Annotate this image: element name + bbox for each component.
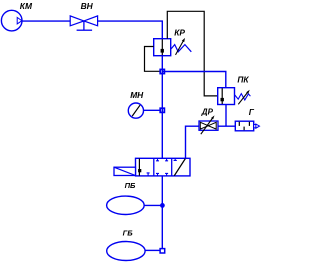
DR adjust arrow: [201, 118, 213, 135]
throttle DR box: [199, 121, 218, 130]
valve VN left triangle: [70, 16, 84, 26]
section3 top port mark: [174, 158, 177, 160]
DR bowtie left: [200, 122, 208, 129]
wire PK to bottom line: [225, 105, 227, 127]
svg-text:МН: МН: [130, 90, 144, 100]
cylinder G body: [235, 121, 253, 131]
gauge MN circle: [128, 103, 143, 118]
junction node at branch: [160, 69, 164, 73]
section1 bottom port mark: [147, 173, 150, 176]
distributor body: [136, 158, 191, 176]
cylinder G rod arrow: [256, 124, 260, 128]
svg-text:ВН: ВН: [81, 1, 94, 11]
pump KM outlet triangle: [17, 17, 22, 24]
junction ring GB: [160, 249, 165, 253]
gauge MN needle: [132, 105, 140, 116]
relief valve KR box: [154, 39, 171, 56]
KR element line: [161, 39, 163, 55]
junction node at MN branch: [160, 108, 164, 112]
section3 flow diagonal: [174, 159, 185, 176]
PK spring: [235, 94, 251, 100]
wire pump to VN: [22, 20, 70, 22]
solenoid box: [114, 167, 136, 175]
junction dot PB: [160, 203, 165, 208]
section2 bottom port marks: [156, 173, 168, 175]
solenoid diagonal: [114, 167, 136, 175]
section1 element square: [138, 169, 141, 172]
KR adjust arrow: [176, 40, 184, 55]
wire GB to main line: [145, 249, 160, 251]
KR spring: [171, 45, 191, 52]
wire VN to corner and main vertical down to distributor: [98, 21, 163, 158]
tank GB ellipse: [107, 242, 145, 261]
svg-text:ПБ: ПБ: [125, 181, 136, 190]
cylinder G tick 1: [238, 122, 240, 126]
section2 top port marks: [156, 158, 168, 160]
PK adjust arrow: [238, 92, 247, 104]
wire MN to main line: [144, 109, 161, 111]
svg-text:Г: Г: [249, 107, 255, 117]
valve VN right triangle: [84, 16, 98, 26]
distributor divider 2: [171, 158, 173, 176]
KR pilot line top (black): [167, 11, 217, 96]
pump KM circle: [1, 10, 22, 31]
svg-text:КР: КР: [174, 27, 185, 37]
svg-text:ГБ: ГБ: [123, 228, 134, 237]
valve VN stem: [83, 21, 85, 30]
DR bowtie right: [208, 122, 216, 129]
PK element line: [221, 88, 223, 104]
PK element square: [221, 98, 224, 101]
wire branch to PK: [162, 72, 226, 88]
svg-text:ДР: ДР: [201, 107, 214, 116]
wire PB to main line: [144, 204, 162, 206]
wire throttle branch from distributor: [186, 126, 200, 158]
wire distributor to tanks: [161, 176, 163, 251]
section1 element line: [138, 159, 140, 176]
wire throttle to cylinder: [218, 125, 235, 127]
svg-text:ПК: ПК: [237, 74, 249, 84]
cylinder G rod block: [254, 125, 256, 128]
valve VN handle bar: [77, 29, 93, 31]
tank PB ellipse: [107, 196, 145, 214]
distributor divider 1: [153, 158, 155, 176]
KR element square: [161, 49, 164, 53]
cylinder G tick 2: [248, 122, 250, 126]
valve PK box: [218, 88, 235, 105]
cylinder G tick 3: [243, 127, 245, 131]
svg-text:КМ: КМ: [20, 1, 33, 11]
KR pilot line left (black): [145, 47, 161, 72]
